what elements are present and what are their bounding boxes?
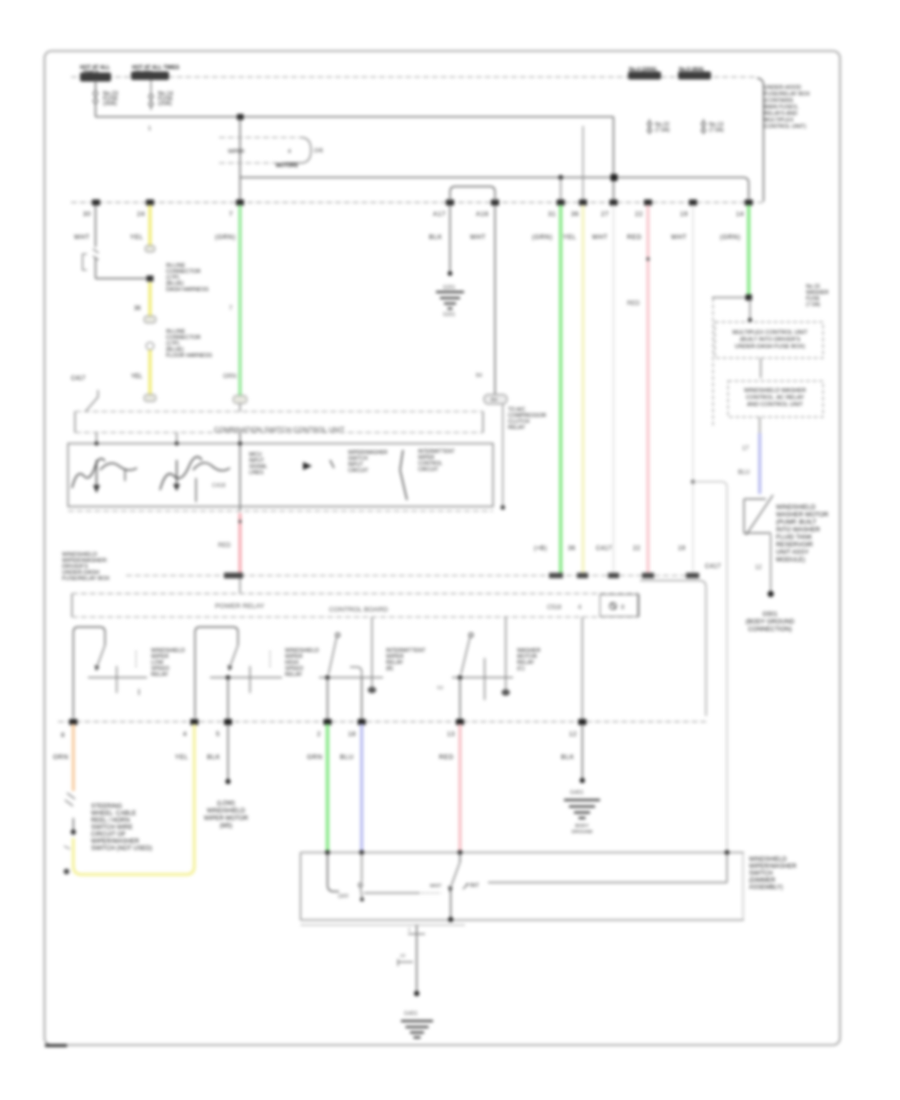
svg-text:RED: RED: [627, 301, 640, 307]
svg-text:WHEEL: CABLE: WHEEL: CABLE: [91, 810, 136, 817]
svg-text:27: 27: [601, 211, 609, 218]
svg-text:MULTIPLEX: MULTIPLEX: [764, 118, 794, 124]
svg-text:G401: G401: [404, 1011, 418, 1017]
svg-text:36: 36: [568, 546, 576, 552]
svg-text:SWITCH WIRE: SWITCH WIRE: [91, 824, 133, 831]
svg-text:CIRCUIT: CIRCUIT: [418, 467, 438, 473]
svg-text:(BODY GROUND: (BODY GROUND: [746, 619, 795, 626]
svg-text:1: 1: [408, 927, 411, 932]
svg-text:WHT: WHT: [671, 234, 687, 241]
svg-text:RELAY: RELAY: [285, 672, 303, 678]
svg-text:30: 30: [83, 211, 91, 218]
svg-text:4: 4: [578, 605, 582, 611]
svg-text:(7.5A): (7.5A): [806, 302, 820, 308]
svg-text:YEL: YEL: [175, 754, 188, 761]
svg-text:LINES: LINES: [249, 470, 264, 476]
svg-text:G401: G401: [570, 790, 584, 796]
svg-text:No.9 (40A): No.9 (40A): [679, 67, 704, 73]
svg-text:BLK: BLK: [561, 754, 575, 761]
svg-text:RESERVOIR: RESERVOIR: [776, 542, 813, 549]
svg-text:G201: G201: [443, 285, 455, 291]
svg-text:GRN: GRN: [223, 374, 236, 380]
svg-text:COMBINATION SWITCH CONTROL UNI: COMBINATION SWITCH CONTROL UNIT: [214, 427, 345, 434]
svg-text:24: 24: [137, 211, 145, 218]
svg-text:14: 14: [736, 211, 744, 218]
svg-text:(PUMP, BUILT: (PUMP, BUILT: [776, 519, 817, 526]
svg-text:RELAYS AND: RELAYS AND: [764, 111, 798, 117]
svg-text:7: 7: [229, 306, 233, 312]
svg-text:(CONTAINS: (CONTAINS: [764, 98, 794, 104]
svg-text:POWER RELAY: POWER RELAY: [215, 603, 265, 610]
svg-text:(GRN): (GRN): [215, 234, 236, 241]
svg-text:MULTIPLEX CONTROL UNIT: MULTIPLEX CONTROL UNIT: [732, 330, 808, 336]
svg-text:ORN: ORN: [53, 754, 69, 761]
svg-text:36: 36: [571, 211, 579, 218]
svg-text:(30A): (30A): [103, 101, 117, 107]
svg-text:YEL: YEL: [563, 234, 576, 241]
svg-text:8: 8: [621, 605, 625, 611]
svg-text:(B): (B): [386, 666, 393, 672]
svg-text:G2: G2: [437, 685, 444, 690]
svg-text:RELAY: RELAY: [151, 672, 169, 678]
svg-text:BODY: BODY: [575, 823, 589, 829]
svg-text:22: 22: [633, 546, 641, 552]
svg-text:A16: A16: [476, 211, 489, 218]
svg-text:GRN: GRN: [307, 754, 323, 761]
svg-text:(GRN): (GRN): [532, 234, 553, 241]
svg-text:(C): (C): [517, 666, 525, 672]
svg-text:(14): (14): [314, 148, 323, 154]
svg-text:WHT: WHT: [470, 234, 486, 241]
svg-text:MOTORS: MOTORS: [276, 163, 299, 169]
svg-text:BLK: BLK: [207, 754, 221, 761]
svg-text:YEL: YEL: [131, 374, 143, 380]
svg-text:RED: RED: [439, 754, 454, 761]
svg-text:BLU: BLU: [738, 470, 750, 476]
svg-text:(7.5A): (7.5A): [709, 128, 724, 134]
svg-text:C417: C417: [705, 564, 721, 570]
svg-text:INTO WASHER: INTO WASHER: [776, 527, 821, 534]
svg-text:FUSE/RELAY BOX: FUSE/RELAY BOX: [764, 92, 810, 98]
svg-text:G201: G201: [443, 312, 455, 318]
svg-text:WHT: WHT: [592, 234, 608, 241]
svg-text:RELAY: RELAY: [508, 425, 525, 431]
svg-text:BLU: BLU: [340, 754, 354, 761]
svg-text:19: 19: [680, 211, 688, 218]
svg-text:12: 12: [569, 731, 577, 738]
svg-text:WASHER MOTOR: WASHER MOTOR: [776, 512, 829, 519]
svg-text:2: 2: [317, 731, 321, 738]
svg-text:DASH HARNESS: DASH HARNESS: [166, 287, 209, 293]
svg-text:18: 18: [348, 731, 356, 738]
svg-text:C418: C418: [212, 483, 225, 489]
svg-text:A17: A17: [433, 211, 446, 218]
svg-text:STEERING: STEERING: [91, 803, 122, 810]
svg-text:22: 22: [635, 211, 643, 218]
svg-text:AND CONTROL UNIT: AND CONTROL UNIT: [747, 402, 804, 408]
svg-text:CONNECTION): CONNECTION): [748, 626, 792, 633]
svg-text:WIPER/WASHER: WIPER/WASHER: [91, 838, 140, 845]
svg-text:31: 31: [548, 211, 556, 218]
svg-text:CONTROL UNIT): CONTROL UNIT): [764, 124, 806, 130]
svg-text:(M5): (M5): [220, 823, 233, 830]
svg-text:(+B): (+B): [534, 546, 547, 552]
svg-text:MODULE): MODULE): [776, 557, 805, 564]
svg-text:WINDSHIELD: WINDSHIELD: [776, 504, 816, 511]
svg-text:MIST: MIST: [430, 883, 442, 889]
svg-text:CIRCUIT OF: CIRCUIT OF: [91, 831, 126, 838]
svg-text:4: 4: [183, 731, 187, 738]
svg-text:OFF: OFF: [338, 894, 349, 900]
svg-text:CIRCUIT: CIRCUIT: [348, 468, 368, 474]
svg-text:4: 4: [288, 149, 291, 155]
svg-text:(7.5A): (7.5A): [655, 128, 670, 134]
svg-text:C518: C518: [547, 605, 562, 611]
svg-text:CONTROL BOARD: CONTROL BOARD: [329, 607, 388, 614]
svg-text:G501: G501: [762, 611, 778, 618]
svg-text:REEL / HORN: REEL / HORN: [91, 817, 130, 824]
svg-text:SWITCH: SWITCH: [749, 871, 773, 877]
svg-text:WIPER MOTOR: WIPER MOTOR: [204, 815, 249, 822]
svg-text:10: 10: [400, 953, 406, 958]
svg-text:(20A): (20A): [158, 101, 172, 107]
svg-text:ASSEMBLY): ASSEMBLY): [749, 885, 783, 891]
svg-text:WINDSHIELD: WINDSHIELD: [749, 857, 787, 863]
svg-text:FLUID TANK: FLUID TANK: [776, 534, 813, 541]
svg-text:FLOOR HARNESS: FLOOR HARNESS: [166, 353, 213, 359]
svg-text:1: 1: [148, 126, 151, 132]
svg-text:B4: B4: [476, 373, 482, 379]
svg-text:BLK: BLK: [429, 234, 443, 241]
svg-text:GROUND: GROUND: [571, 829, 593, 835]
svg-text:B4: B4: [491, 398, 497, 404]
svg-text:(LOW): (LOW): [217, 800, 235, 807]
svg-text:(GRN): (GRN): [720, 234, 741, 241]
svg-text:WINDSHIELD WASHER: WINDSHIELD WASHER: [744, 388, 806, 394]
svg-text:RED: RED: [627, 234, 642, 241]
svg-text:No.4 (100A): No.4 (100A): [629, 67, 657, 73]
svg-text:C417: C417: [71, 376, 86, 382]
svg-text:19: 19: [678, 546, 686, 552]
svg-text:WIPER/WASHER: WIPER/WASHER: [749, 864, 797, 870]
svg-text:INT: INT: [470, 883, 480, 889]
svg-text:C417: C417: [596, 546, 612, 552]
svg-text:UNDER-DASH FUSE BOX): UNDER-DASH FUSE BOX): [735, 344, 805, 350]
svg-text:UNDER-HOOD: UNDER-HOOD: [764, 85, 801, 91]
svg-text:YEL: YEL: [130, 234, 143, 241]
svg-text:12: 12: [755, 565, 762, 571]
svg-text:7: 7: [229, 211, 233, 218]
svg-text:(BUILT INTO DRIVER'S: (BUILT INTO DRIVER'S: [740, 337, 801, 343]
svg-text:RED: RED: [218, 543, 231, 549]
svg-text:WINDSHIELD: WINDSHIELD: [207, 808, 246, 815]
svg-text:17: 17: [742, 446, 749, 452]
svg-text:13: 13: [447, 731, 455, 738]
svg-text:36: 36: [134, 306, 141, 312]
svg-text:CONTROL: AC RELAY: CONTROL: AC RELAY: [746, 395, 805, 401]
svg-text:UNIT ASSY: UNIT ASSY: [776, 549, 810, 556]
svg-text:5: 5: [216, 731, 220, 738]
svg-text:8: 8: [61, 732, 65, 739]
svg-text:WHT: WHT: [74, 234, 90, 241]
svg-text:WIPER: WIPER: [228, 149, 245, 155]
svg-text:(DIMMER: (DIMMER: [749, 878, 776, 884]
svg-text:FUSE/RELAY BOX: FUSE/RELAY BOX: [62, 576, 110, 582]
svg-text:SWITCH (NOT USED): SWITCH (NOT USED): [91, 845, 152, 852]
svg-text:MAIN FUSES,: MAIN FUSES,: [764, 105, 799, 111]
